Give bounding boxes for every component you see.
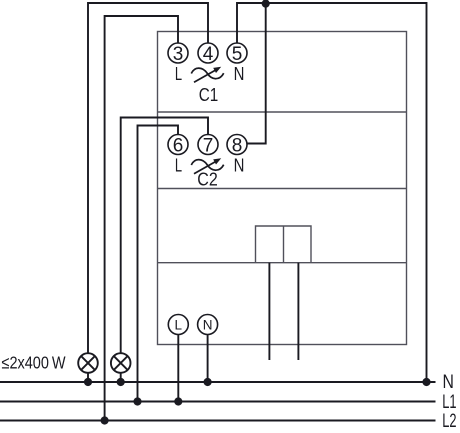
dimmer symbol C1 wave [191,68,223,79]
junction dot terminal L / L1 line [174,397,182,405]
junction dot terminal 6 wire / L1 line [133,397,141,405]
dimmer symbol C1 arrow [194,70,216,82]
svg-text:L: L [175,155,182,176]
svg-text:N: N [234,155,245,176]
terminal 5 [227,43,247,63]
terminal 3 [168,43,188,63]
junction dot terminal N / N line [204,378,212,386]
dimmer symbol C2 wave [191,160,223,171]
wire: terminal L down to L1 line [177,335,179,402]
svg-text:4: 4 [203,44,214,65]
svg-text:6: 6 [173,135,184,156]
L1 line [0,401,436,403]
svg-text:C1: C1 [199,85,219,105]
svg-text:N: N [234,63,245,84]
wire: branch to terminal 8 [246,3,265,144]
terminal L [168,315,188,335]
dimmer symbol C2 arrow [194,162,216,174]
terminal 7 [198,135,218,155]
wire: block output 1 [268,263,270,360]
junction dot lamp2 / N line [117,378,125,386]
junction dot lamp1 / N line [84,378,92,386]
dimmer symbol C1 arrowhead [213,67,221,73]
svg-text:L: L [175,63,182,84]
terminal 6 [168,135,188,155]
svg-text:L: L [175,318,183,333]
terminal N [198,315,218,335]
wire: terminal 6 to L1 line [138,126,179,402]
wire: terminal 5 to N line [237,3,427,382]
terminal 8 [227,135,247,155]
wire: terminal 7 to lamp 2 [121,118,208,354]
svg-text:L2: L2 [442,411,456,432]
device box divider 3 [158,262,407,264]
svg-text:8: 8 [232,135,243,156]
N line [0,381,436,383]
svg-text:N: N [203,318,213,333]
device box outline [158,32,407,345]
wire: terminal 4 to lamp 1 [88,3,208,353]
svg-text:≤2x400 W: ≤2x400 W [2,353,66,373]
device box divider 1 [158,111,407,113]
svg-text:N: N [443,372,454,393]
svg-text:3: 3 [173,44,184,65]
svg-text:5: 5 [232,44,243,65]
dimmer symbol C2 arrowhead [213,158,221,164]
device box divider 2 [158,188,407,190]
connector block [256,226,312,263]
junction dot right riser / N line [422,378,430,386]
terminal 4 [198,43,218,63]
wire: lamp 2 to N line [120,373,122,382]
L2 line [0,420,436,422]
wire: block output 2 [297,263,299,360]
wire: lamp 1 to N line [87,373,89,382]
junction dot terminal 3 wire / L2 line [101,416,109,424]
lamp 2 [111,353,131,373]
svg-text:C2: C2 [197,169,218,189]
svg-text:7: 7 [203,135,214,156]
wire: terminal 3 to L2 line [105,16,178,421]
wire: terminal N down to N line [207,335,209,383]
junction dot terminal5/terminal8 branch [262,0,270,8]
lamp 1 [78,353,98,373]
